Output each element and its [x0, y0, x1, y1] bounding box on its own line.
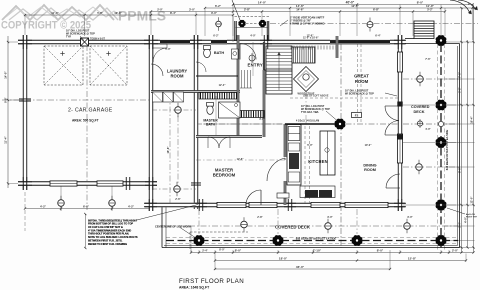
svg-text:4": 4" — [468, 3, 470, 6]
svg-text:18'-0": 18'-0" — [279, 257, 288, 261]
svg-text:ROOM: ROOM — [364, 168, 376, 172]
svg-text:5'-8": 5'-8" — [97, 11, 103, 15]
svg-text:8'-0": 8'-0" — [235, 249, 242, 253]
svg-text:3'-0": 3'-0" — [189, 8, 196, 12]
svg-text:16'-8": 16'-8" — [166, 146, 170, 154]
svg-text:4'-0": 4'-0" — [250, 35, 256, 38]
svg-text:4'-2": 4'-2" — [40, 205, 47, 209]
svg-text:4'-0": 4'-0" — [425, 128, 431, 131]
svg-text:5'-0": 5'-0" — [307, 144, 313, 147]
svg-text:3'-0": 3'-0" — [407, 216, 413, 219]
svg-text:ROOM: ROOM — [355, 79, 369, 84]
svg-text:BATH: BATH — [206, 123, 216, 127]
svg-text:2'-8": 2'-8" — [244, 8, 251, 12]
svg-text:2'-8": 2'-8" — [257, 216, 263, 219]
svg-text:GREAT: GREAT — [354, 74, 369, 79]
svg-text:2'-0": 2'-0" — [157, 8, 163, 12]
svg-text:TYP. ADJ. T&B.: TYP. ADJ. T&B. — [301, 111, 319, 114]
svg-text:3'-0": 3'-0" — [211, 11, 218, 15]
svg-text:12'-0": 12'-0" — [469, 196, 473, 204]
svg-text:4 1/2x11 1/4 GLULAM: 4 1/2x11 1/4 GLULAM — [296, 120, 319, 123]
svg-text:8'-0": 8'-0" — [417, 1, 424, 5]
svg-text:LINE OF LOFT ABOVE: LINE OF LOFT ABOVE — [303, 95, 329, 98]
svg-text:12'-0": 12'-0" — [114, 11, 122, 15]
svg-text:4'-2": 4'-2" — [128, 205, 135, 209]
svg-text:8'-0": 8'-0" — [377, 249, 384, 253]
svg-text:8x8 BEAM W/ 8x8 POST EA SIDE: 8x8 BEAM W/ 8x8 POST EA SIDE — [445, 130, 449, 171]
svg-text:DECK: DECK — [414, 109, 425, 114]
svg-text:6'-4": 6'-4" — [375, 35, 381, 38]
svg-text:10'-0": 10'-0" — [365, 144, 373, 147]
svg-text:6'-0": 6'-0" — [83, 205, 90, 209]
svg-text:7'-10": 7'-10" — [313, 249, 322, 253]
svg-text:2'-0": 2'-0" — [452, 249, 459, 253]
svg-text:W/ SCREWJACK @ TOP: W/ SCREWJACK @ TOP — [345, 92, 374, 95]
svg-text:2'-4": 2'-4" — [202, 249, 208, 253]
svg-text:11'-4": 11'-4" — [4, 136, 8, 144]
svg-text:2'-6": 2'-6" — [175, 198, 181, 201]
svg-text:12'-4": 12'-4" — [351, 4, 359, 8]
svg-text:AREA: 506 SQ.FT: AREA: 506 SQ.FT — [72, 119, 99, 123]
svg-text:12'-4": 12'-4" — [219, 84, 227, 87]
svg-text:3'-6": 3'-6" — [259, 118, 265, 121]
svg-text:BEDROOM: BEDROOM — [213, 173, 236, 178]
svg-text:14'-6": 14'-6" — [296, 8, 304, 12]
svg-text:16'-4": 16'-4" — [469, 116, 473, 124]
svg-text:8x8 BEAM W/ 8x8 POST EA SIDE: 8x8 BEAM W/ 8x8 POST EA SIDE — [296, 237, 337, 241]
svg-text:5'-0": 5'-0" — [165, 48, 171, 51]
svg-text:5'-2": 5'-2" — [427, 8, 433, 12]
svg-text:2'-4": 2'-4" — [458, 222, 461, 227]
svg-text:4x4 LOG: 4x4 LOG — [466, 213, 475, 216]
svg-text:CENTERLINE OF LOG WORK: CENTERLINE OF LOG WORK — [155, 224, 191, 228]
svg-text:11'-0": 11'-0" — [426, 4, 435, 8]
svg-text:BATH: BATH — [214, 51, 225, 55]
svg-text:ROOM: ROOM — [170, 74, 184, 79]
svg-text:11'-4": 11'-4" — [51, 11, 59, 15]
svg-text:AREA: 1648 SQ.FT: AREA: 1648 SQ.FT — [179, 286, 210, 290]
svg-text:3'-2": 3'-2" — [457, 86, 461, 92]
svg-text:46'-0": 46'-0" — [296, 265, 305, 269]
svg-text:8'-0": 8'-0" — [219, 249, 225, 252]
svg-text:POST TYP.: POST TYP. — [466, 217, 478, 219]
svg-text:REFER TO FIRST FLR. FRAMING: REFER TO FIRST FLR. FRAMING — [88, 243, 127, 246]
svg-text:12'-8": 12'-8" — [237, 158, 245, 161]
svg-text:F2: F2 — [355, 114, 359, 118]
svg-text:ENTRY: ENTRY — [248, 63, 263, 68]
svg-text:MASTER: MASTER — [215, 167, 234, 172]
svg-text:14'-0": 14'-0" — [4, 71, 8, 79]
svg-text:15'-8": 15'-8" — [408, 257, 417, 261]
svg-text:TOBIN # 8-8T: TOBIN # 8-8T — [90, 38, 106, 41]
svg-text:6'-2": 6'-2" — [215, 4, 222, 8]
svg-text:3'-0": 3'-0" — [327, 216, 333, 219]
svg-text:9'-6": 9'-6" — [4, 96, 8, 102]
svg-text:DINING: DINING — [363, 164, 376, 168]
svg-text:6'-8": 6'-8" — [373, 8, 380, 12]
svg-text:14'-0": 14'-0" — [258, 1, 267, 5]
svg-text:7'-6": 7'-6" — [425, 58, 431, 61]
svg-text:KITCHEN: KITCHEN — [308, 159, 328, 164]
svg-text:FIRST FLOOR PLAN: FIRST FLOOR PLAN — [179, 278, 244, 285]
svg-text:6'-2": 6'-2" — [213, 35, 219, 38]
svg-text:8'-4": 8'-4" — [170, 11, 177, 15]
svg-text:6 RUNS @ 10" W/ 1" NOSING: 6 RUNS @ 10" W/ 1" NOSING — [290, 22, 325, 25]
svg-text:12'-8": 12'-8" — [307, 35, 315, 38]
svg-text:2- CAR GARAGE: 2- CAR GARAGE — [68, 108, 113, 114]
svg-text:TYP.: TYP. — [66, 35, 72, 38]
svg-text:COVERED DECK: COVERED DECK — [275, 225, 311, 230]
